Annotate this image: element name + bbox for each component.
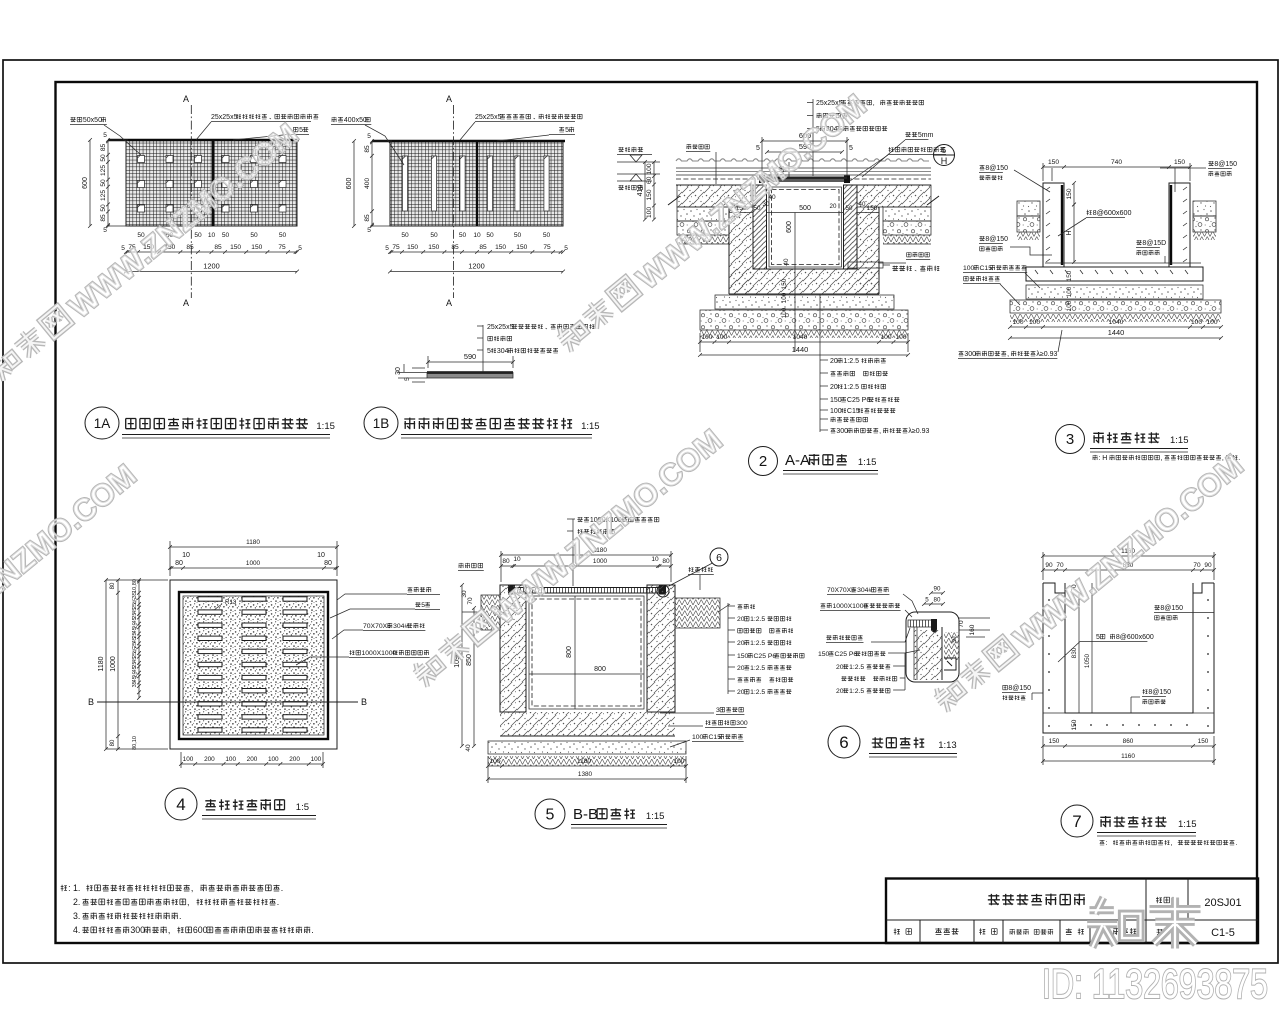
title 5: B-B profile 1:15 bbox=[535, 799, 667, 829]
title block cells row bbox=[894, 928, 1136, 935]
svg-text:1000X1000: 1000X1000 bbox=[362, 650, 397, 657]
title 7: structure detail 1:15 bbox=[1061, 805, 1197, 837]
svg-text:75: 75 bbox=[278, 244, 286, 251]
svg-text:1:2.5: 1:2.5 bbox=[750, 689, 765, 696]
svg-text:4: 4 bbox=[176, 795, 185, 814]
svg-text:B: B bbox=[88, 697, 94, 707]
B-B cover grating strip bbox=[508, 586, 666, 595]
svg-text:5: 5 bbox=[103, 132, 107, 139]
svg-text:150: 150 bbox=[495, 244, 506, 251]
plate 1B mosaic cover body bbox=[372, 141, 565, 226]
svg-text:5: 5 bbox=[367, 133, 371, 140]
svg-text:1000X1000: 1000X1000 bbox=[833, 603, 868, 610]
label: slope to drain (left) bbox=[686, 144, 716, 184]
pool finish layer lines bbox=[676, 168, 931, 185]
plate 1B left dim chain 5/85/400/85/5 bbox=[364, 133, 392, 234]
pit concrete body (right leg) bbox=[857, 207, 879, 294]
materials leader stack (A-A) bbox=[820, 294, 929, 435]
big ZhiMo watermark at title block bbox=[1087, 897, 1200, 948]
base layer dims 150/100/100 (rotated) bbox=[781, 278, 788, 318]
svg-text:ID: 1132693875: ID: 1132693875 bbox=[1042, 960, 1268, 1007]
section cut arrows on pool slab bbox=[668, 196, 939, 205]
svg-text:100: 100 bbox=[830, 408, 842, 415]
label: 25x25x5 glass mosaic note (1A) bbox=[211, 114, 318, 122]
svg-text:200: 200 bbox=[247, 756, 258, 763]
svg-text:600: 600 bbox=[786, 221, 793, 233]
svg-text:70: 70 bbox=[1056, 562, 1064, 569]
B-B top labels bbox=[567, 517, 659, 586]
svg-text:80: 80 bbox=[175, 560, 183, 567]
svg-text:85: 85 bbox=[214, 244, 222, 251]
svg-text:500: 500 bbox=[799, 205, 811, 212]
vertical dims 150 H 150 100 100 bbox=[1066, 181, 1076, 311]
svg-text:100: 100 bbox=[701, 334, 712, 341]
plate 1A left dim chain (85/50/125/50/125/50/85) bbox=[100, 132, 128, 234]
svg-text:590: 590 bbox=[464, 352, 476, 361]
plate 1A bottom dim chain 5/75/150/150/85/85/150/150/75/5 bbox=[121, 244, 302, 254]
label 100thk C15 concrete bbox=[670, 734, 744, 747]
svg-text:5: 5 bbox=[942, 146, 947, 155]
svg-text:40: 40 bbox=[465, 744, 472, 752]
svg-text:100: 100 bbox=[880, 334, 891, 341]
label phi8@150 left bbox=[1002, 685, 1043, 700]
svg-text:1B: 1B bbox=[373, 416, 390, 431]
svg-text:6: 6 bbox=[839, 733, 848, 752]
svg-text:20: 20 bbox=[737, 616, 745, 623]
svg-text:600: 600 bbox=[82, 177, 89, 189]
section 2 left dim chain 100/60/150/100 + total 410 bbox=[646, 160, 656, 221]
svg-text:85: 85 bbox=[100, 144, 107, 152]
svg-text:5: 5 bbox=[849, 145, 853, 152]
structure bottom dim chain bbox=[1008, 319, 1223, 329]
svg-text:75: 75 bbox=[392, 244, 400, 251]
node detail material labels bbox=[818, 650, 920, 695]
svg-text:20: 20 bbox=[737, 640, 745, 647]
label phi8@150 double layer (top left) bbox=[979, 165, 1052, 192]
svg-text:B: B bbox=[361, 697, 367, 707]
svg-text:3.: 3. bbox=[73, 911, 80, 921]
svg-text:1:2.5: 1:2.5 bbox=[849, 664, 864, 671]
svg-text:10: 10 bbox=[651, 556, 659, 563]
plate 1A total height dim 600 bbox=[82, 138, 92, 228]
svg-text:100: 100 bbox=[646, 207, 653, 218]
structure top dims 150/740/150 bbox=[1041, 159, 1192, 181]
svg-text:600: 600 bbox=[193, 925, 208, 935]
B-B top dim 1180 bbox=[499, 547, 673, 557]
svg-text:200: 200 bbox=[204, 756, 215, 763]
plate 1B total width dim 1200 bbox=[388, 262, 565, 274]
footing: plain concrete layer bbox=[715, 295, 894, 309]
svg-text:,: , bbox=[191, 883, 193, 893]
title 4: stream lake pump pit 1:5 bbox=[165, 788, 316, 820]
svg-text:1180: 1180 bbox=[246, 539, 260, 546]
svg-text:300: 300 bbox=[130, 925, 145, 935]
svg-text:50x50: 50x50 bbox=[83, 117, 102, 124]
svg-text:150: 150 bbox=[818, 651, 830, 658]
svg-text:1:2.5: 1:2.5 bbox=[843, 384, 859, 391]
svg-text:150: 150 bbox=[516, 244, 527, 251]
svg-text:5: 5 bbox=[299, 127, 303, 134]
svg-text:25x25x5: 25x25x5 bbox=[211, 114, 238, 121]
strip detail left dims 30/5 bbox=[395, 364, 427, 382]
svg-text:80: 80 bbox=[110, 582, 116, 589]
svg-text:8@150: 8@150 bbox=[985, 165, 1008, 172]
svg-text:,: , bbox=[1007, 351, 1009, 358]
svg-text:100: 100 bbox=[1191, 319, 1202, 326]
vertical dim 100 at cover bbox=[779, 162, 789, 179]
structure footing layers bbox=[1010, 285, 1221, 322]
svg-text:10: 10 bbox=[513, 556, 521, 563]
plate 1B slot holes x6 bbox=[402, 156, 549, 211]
B-B left soil block bbox=[462, 595, 500, 630]
svg-text:A: A bbox=[183, 298, 189, 308]
svg-text:C15: C15 bbox=[709, 734, 722, 741]
svg-text:1040: 1040 bbox=[793, 334, 808, 341]
svg-text:70: 70 bbox=[467, 597, 474, 605]
label phi8@150 (left mid) bbox=[979, 236, 1052, 255]
svg-text:60: 60 bbox=[646, 176, 653, 184]
svg-text:1200: 1200 bbox=[468, 262, 484, 271]
callout circle 6 bbox=[669, 548, 728, 586]
interior width dims 150/50/30 500 20/50/40/150 bbox=[729, 194, 879, 213]
svg-text:50: 50 bbox=[430, 232, 438, 239]
svg-text:20: 20 bbox=[836, 664, 844, 671]
svg-text:1A: 1A bbox=[94, 416, 111, 431]
svg-text:70X70X5: 70X70X5 bbox=[363, 623, 391, 630]
svg-text:20: 20 bbox=[737, 665, 745, 672]
structure total dim 1440 bbox=[1008, 328, 1223, 340]
svg-text:5: 5 bbox=[925, 597, 929, 604]
svg-text:1200: 1200 bbox=[203, 262, 219, 271]
svg-text:5: 5 bbox=[404, 377, 411, 381]
compacted soil hatch under footing bbox=[700, 330, 908, 338]
label 5th phi8@600x600 bbox=[1058, 634, 1154, 662]
title 3: structure detail 1:15 bbox=[1056, 425, 1189, 454]
svg-text:1:13: 1:13 bbox=[938, 740, 957, 751]
label phi8@150 right top bbox=[1154, 605, 1214, 620]
svg-text:150: 150 bbox=[1066, 188, 1073, 199]
section line A-A through plate 1B bbox=[446, 94, 454, 308]
svg-text:C25 P6: C25 P6 bbox=[754, 653, 777, 660]
svg-text:A-A: A-A bbox=[785, 452, 810, 469]
svg-text:150: 150 bbox=[830, 397, 842, 404]
label slope (right of B-B) bbox=[688, 567, 714, 590]
svg-text:410: 410 bbox=[637, 185, 644, 197]
title block right cells bbox=[1156, 897, 1242, 939]
svg-text:100: 100 bbox=[1066, 286, 1073, 297]
section 2 total dim 1440 bbox=[698, 345, 910, 357]
section 7 inner vertical dims 70/830/1050/150 bbox=[1071, 583, 1092, 730]
title 1A: mosaic cover (square holes) pump pit 1:15 bbox=[85, 407, 335, 439]
svg-text:150: 150 bbox=[1198, 738, 1209, 745]
svg-text:,: , bbox=[168, 925, 170, 935]
svg-text:1:2.5: 1:2.5 bbox=[849, 688, 864, 695]
svg-text:50: 50 bbox=[100, 154, 107, 162]
rebar wall outline (U shape) bbox=[1026, 183, 1203, 281]
svg-text:10: 10 bbox=[473, 232, 481, 239]
svg-text:1:15: 1:15 bbox=[1170, 435, 1189, 446]
svg-text:8@150: 8@150 bbox=[985, 236, 1008, 243]
svg-text:100: 100 bbox=[311, 756, 322, 763]
svg-text:80: 80 bbox=[110, 739, 116, 746]
svg-text:5: 5 bbox=[385, 245, 389, 252]
svg-text:C25 P6: C25 P6 bbox=[847, 397, 870, 404]
svg-text:: H: : H bbox=[1098, 455, 1107, 462]
plate 1A mosaic cover body bbox=[108, 140, 299, 226]
svg-text:H: H bbox=[1066, 230, 1073, 235]
svg-text:30: 30 bbox=[395, 367, 402, 375]
plan left dim 1000 + 1180 bbox=[110, 578, 120, 751]
svg-text:7: 7 bbox=[1072, 812, 1081, 831]
svg-text:.: . bbox=[281, 883, 283, 893]
svg-text:1040: 1040 bbox=[1109, 319, 1124, 326]
svg-text:1000: 1000 bbox=[110, 656, 117, 672]
svg-text:.: . bbox=[1235, 840, 1237, 847]
svg-text:1000: 1000 bbox=[246, 560, 261, 567]
svg-text:3: 3 bbox=[1066, 431, 1074, 448]
svg-text:850: 850 bbox=[466, 654, 473, 666]
cover plate bar (A-A) bbox=[759, 176, 850, 184]
B-B left dims 30/70, 1090, 850, 40 bbox=[454, 583, 476, 752]
svg-text:100: 100 bbox=[183, 756, 194, 763]
svg-text:400x50: 400x50 bbox=[344, 117, 367, 124]
svg-text:125: 125 bbox=[100, 190, 107, 201]
svg-text:85: 85 bbox=[364, 145, 371, 153]
detail callout circle H bbox=[934, 145, 955, 167]
svg-text:100: 100 bbox=[646, 163, 653, 174]
svg-text:B-B: B-B bbox=[573, 806, 598, 823]
svg-text:150: 150 bbox=[1066, 270, 1073, 281]
svg-text:4.: 4. bbox=[73, 925, 80, 935]
svg-text:20: 20 bbox=[836, 688, 844, 695]
plan bottom dim chain 100/200/100/200/100/200/100 bbox=[179, 752, 325, 768]
label: reserved 400x50 hole bbox=[331, 117, 404, 165]
section 7 bottom dims 150/860/150 + 1160 bbox=[1041, 736, 1216, 765]
svg-text:R13: R13 bbox=[225, 599, 237, 606]
svg-text:85: 85 bbox=[451, 244, 459, 251]
svg-text:100: 100 bbox=[1206, 319, 1217, 326]
node detail left labels bbox=[820, 587, 918, 643]
svg-text:90: 90 bbox=[1045, 562, 1053, 569]
ID watermark text bbox=[1042, 960, 1268, 1007]
svg-text:.: . bbox=[179, 911, 181, 921]
elevation marker: water bottom level bbox=[617, 174, 660, 190]
node detail drawing (rounded boundary) bbox=[906, 612, 959, 682]
left bedding stipple layers bbox=[677, 207, 729, 244]
B-B interior dims 800x800 bbox=[529, 596, 644, 709]
label: joint 5 (1A) bbox=[196, 122, 309, 140]
svg-text:2: 2 bbox=[759, 453, 767, 470]
label 100thk C15 blinding bbox=[963, 265, 1040, 288]
svg-text:5: 5 bbox=[1096, 634, 1100, 641]
svg-text:80: 80 bbox=[934, 597, 941, 604]
svg-text:1:15: 1:15 bbox=[858, 457, 877, 468]
drain pipe and submersible pump label bbox=[848, 262, 939, 271]
svg-text::: : bbox=[1105, 840, 1107, 847]
svg-text:10,80: 10,80 bbox=[132, 579, 138, 593]
plate 1B bottom dim chain 5/75/150/150/85/85/150/150/75/5 bbox=[385, 244, 568, 254]
plan right leader labels bbox=[296, 587, 440, 665]
svg-text:100: 100 bbox=[268, 756, 279, 763]
svg-text:800: 800 bbox=[594, 666, 606, 673]
label: joint 5 (1B) bbox=[460, 122, 575, 141]
svg-text:100: 100 bbox=[1012, 319, 1023, 326]
strip detail material leaders bbox=[477, 324, 594, 372]
label local compacted fill bbox=[963, 276, 1020, 305]
title 1B: mosaic cover (slot holes) pump pit 1:15 bbox=[364, 407, 600, 439]
label phi8@600x600 mesh bbox=[1058, 208, 1131, 236]
svg-text:10: 10 bbox=[317, 552, 325, 559]
svg-text:5: 5 bbox=[756, 145, 760, 152]
svg-text:1:2.5: 1:2.5 bbox=[750, 616, 765, 623]
label stack above A-A cover: mosaic/mesh/cover bbox=[807, 99, 924, 176]
svg-text:5: 5 bbox=[565, 127, 569, 134]
svg-text:150: 150 bbox=[230, 244, 241, 251]
svg-text:: 1.: : 1. bbox=[68, 883, 80, 893]
svg-text:150: 150 bbox=[1048, 159, 1059, 166]
svg-text:300: 300 bbox=[736, 720, 748, 727]
svg-text:,: , bbox=[1170, 840, 1172, 847]
svg-text:5: 5 bbox=[103, 227, 107, 234]
label: 25x25x5 glass mosaic note (1B) bbox=[475, 114, 582, 122]
right soil blocks (structure detail) bbox=[1193, 201, 1216, 240]
svg-text:1:2.5: 1:2.5 bbox=[750, 665, 765, 672]
svg-text:400: 400 bbox=[364, 178, 371, 189]
footing: gravel layer bbox=[700, 310, 908, 330]
svg-text:300: 300 bbox=[836, 428, 848, 435]
svg-text:,: , bbox=[187, 897, 189, 907]
B-B right material bracket bbox=[728, 603, 804, 696]
inner border frame bbox=[56, 82, 1258, 943]
B-B right soil block bbox=[675, 598, 730, 628]
svg-text:8@15D: 8@15D bbox=[1142, 240, 1166, 247]
svg-text:2.: 2. bbox=[73, 897, 80, 907]
label phi8@150 bottom mid bbox=[1131, 689, 1171, 713]
svg-text:70X70X5: 70X70X5 bbox=[827, 587, 855, 594]
pit concrete body (left leg) bbox=[729, 207, 753, 294]
section line A-A through plate 1A bbox=[183, 94, 191, 308]
svg-text:150: 150 bbox=[428, 244, 439, 251]
cover top dims 600 / 590 with 5 5 bbox=[756, 131, 853, 182]
watermark layer bbox=[0, 87, 1250, 730]
svg-text:100: 100 bbox=[673, 758, 684, 765]
plate 1A hole-column dims 50x6 and 10 bbox=[137, 232, 286, 239]
note under title 7 bbox=[1100, 840, 1238, 847]
label slope (left of B-B) bbox=[458, 563, 484, 571]
svg-text:200: 200 bbox=[289, 756, 300, 763]
label phi8@150 (right mid) bbox=[1136, 240, 1166, 263]
svg-text:150: 150 bbox=[407, 244, 418, 251]
svg-text:50: 50 bbox=[514, 232, 522, 239]
title block main title bbox=[988, 894, 1085, 906]
svg-text:8@600x600: 8@600x600 bbox=[1116, 634, 1154, 641]
svg-text:C1-5: C1-5 bbox=[1211, 927, 1235, 939]
svg-text:1:15: 1:15 bbox=[316, 421, 335, 432]
svg-text:70: 70 bbox=[1193, 562, 1201, 569]
svg-text:40: 40 bbox=[859, 201, 866, 208]
svg-text:20SJ01: 20SJ01 bbox=[1204, 897, 1241, 909]
svg-text:50: 50 bbox=[401, 232, 409, 239]
svg-text:50: 50 bbox=[459, 232, 467, 239]
label phi8@150 double layer (top right) bbox=[1160, 161, 1237, 192]
U wall outline bbox=[1043, 583, 1214, 733]
svg-text:λ≥0.93: λ≥0.93 bbox=[908, 428, 929, 435]
label 3 inch wire rope bbox=[660, 707, 744, 715]
svg-text:.: . bbox=[277, 897, 279, 907]
B-B bottom dims 100/1180/100 + 1380 bbox=[486, 756, 688, 783]
svg-text:C15: C15 bbox=[847, 408, 860, 415]
svg-text:8@150: 8@150 bbox=[1214, 161, 1237, 168]
svg-text:90: 90 bbox=[1204, 562, 1212, 569]
left soil blocks (structure detail) bbox=[1017, 201, 1040, 240]
svg-text:5: 5 bbox=[487, 348, 491, 355]
elevation marker: water surface level bbox=[617, 147, 660, 162]
svg-text:100: 100 bbox=[1066, 300, 1073, 311]
svg-text:,: , bbox=[879, 428, 881, 435]
svg-text:10: 10 bbox=[208, 232, 216, 239]
svg-text:300: 300 bbox=[964, 351, 976, 358]
svg-text:30: 30 bbox=[951, 636, 958, 644]
svg-text:90: 90 bbox=[934, 586, 941, 593]
svg-text:80,10: 80,10 bbox=[132, 736, 138, 750]
svg-text:80: 80 bbox=[502, 558, 510, 565]
B-B left wall bbox=[500, 585, 526, 712]
svg-text:150: 150 bbox=[781, 278, 788, 289]
svg-text:150: 150 bbox=[1071, 719, 1078, 730]
svg-text:A: A bbox=[183, 94, 189, 104]
svg-text:100: 100 bbox=[692, 734, 704, 741]
plan inner thick square bbox=[179, 592, 328, 739]
svg-text:8@150: 8@150 bbox=[1008, 685, 1031, 692]
strip detail dim 590 bbox=[426, 352, 515, 368]
svg-text:1:2.5: 1:2.5 bbox=[843, 358, 859, 365]
svg-text:150: 150 bbox=[646, 189, 653, 200]
svg-text:5: 5 bbox=[421, 602, 425, 609]
svg-text:70: 70 bbox=[958, 620, 965, 628]
B-B interior liner bbox=[526, 585, 647, 712]
svg-text:8@600x600: 8@600x600 bbox=[1093, 208, 1132, 217]
plan left dim chain (fine 50/25/45...) bbox=[132, 578, 141, 750]
svg-text:,: , bbox=[873, 100, 875, 107]
svg-text:150: 150 bbox=[737, 653, 749, 660]
left pool slab (concrete hatch) bbox=[677, 185, 753, 207]
svg-text:5: 5 bbox=[367, 227, 371, 234]
svg-text:25x25x5: 25x25x5 bbox=[487, 324, 514, 331]
svg-text:75: 75 bbox=[543, 244, 551, 251]
svg-text:20: 20 bbox=[830, 384, 838, 391]
svg-text:85: 85 bbox=[479, 244, 487, 251]
pit base slab (concrete hatch) bbox=[729, 269, 879, 294]
svg-text:A: A bbox=[446, 94, 452, 104]
svg-text:50: 50 bbox=[222, 232, 230, 239]
svg-text:1180: 1180 bbox=[577, 758, 592, 765]
svg-text:50: 50 bbox=[846, 205, 853, 212]
svg-text:20: 20 bbox=[737, 689, 745, 696]
svg-text:5: 5 bbox=[546, 807, 555, 824]
svg-text:100: 100 bbox=[489, 758, 500, 765]
svg-text:740: 740 bbox=[1111, 159, 1122, 166]
section 2 bottom dim chain 100/100/1040/100/100 bbox=[698, 333, 910, 352]
rebar dots section 7 bbox=[1048, 599, 1209, 727]
pit left wall (hatched) bbox=[753, 185, 767, 269]
svg-text:50: 50 bbox=[279, 232, 287, 239]
svg-text:860: 860 bbox=[1123, 738, 1134, 745]
svg-text:80: 80 bbox=[324, 560, 332, 567]
svg-text:1:15: 1:15 bbox=[581, 421, 600, 432]
title 6: node detail 1:13 bbox=[828, 726, 957, 758]
svg-text:1160: 1160 bbox=[1121, 753, 1135, 760]
label spacing <300 bbox=[668, 720, 748, 728]
